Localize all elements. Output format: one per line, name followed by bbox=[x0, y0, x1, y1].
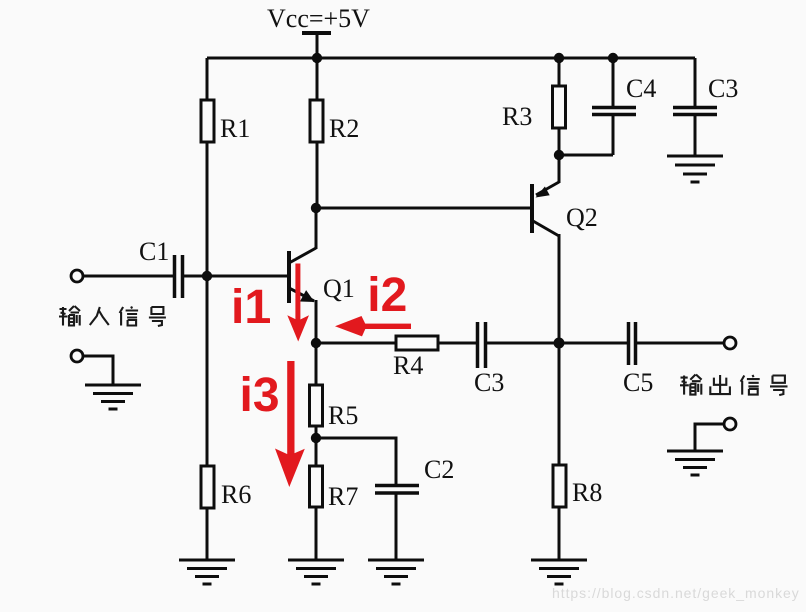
current arrow i2 bbox=[335, 316, 411, 336]
wire R3 to node bbox=[558, 128, 561, 155]
svg-text:C1: C1 bbox=[139, 237, 169, 266]
svg-text:Q1: Q1 bbox=[323, 274, 355, 303]
wire Q2 collector down bbox=[558, 234, 561, 343]
wire output node to C5 bbox=[559, 342, 627, 345]
wire rail to R1 bbox=[206, 58, 209, 100]
wire R5 to node bbox=[315, 426, 318, 438]
junction dot rail/R2 bbox=[312, 53, 322, 63]
capacitor C1 bbox=[175, 255, 183, 298]
wire node to R7 bbox=[315, 438, 318, 466]
capacitor C3 mid bbox=[478, 322, 486, 368]
wire Q1 emitter down bbox=[315, 300, 318, 343]
svg-text:C2: C2 bbox=[424, 455, 454, 484]
svg-text:R7: R7 bbox=[328, 482, 358, 511]
svg-text:C4: C4 bbox=[626, 74, 656, 103]
svg-text:R8: R8 bbox=[572, 478, 602, 507]
capacitor C3 top bbox=[673, 108, 717, 115]
junction dot Q1 emitter node bbox=[311, 338, 321, 348]
transistor Q2 bbox=[532, 182, 559, 236]
junction dot R5/R7/C2 bbox=[311, 433, 321, 443]
wire top rail bbox=[207, 57, 695, 60]
svg-text:i3: i3 bbox=[240, 369, 280, 422]
junction dot R2/Q2 base bbox=[311, 203, 321, 213]
wire base node to Q1 collector bbox=[315, 208, 318, 249]
wire R6 to ground bbox=[206, 508, 209, 560]
wire C3 to ground bbox=[694, 116, 697, 156]
capacitor C5 bbox=[629, 322, 636, 365]
wire rail to R2 bbox=[316, 58, 319, 100]
junction dot output node bbox=[554, 338, 565, 349]
wire input ground bbox=[83, 356, 113, 385]
wire R7 to ground bbox=[315, 507, 318, 560]
capacitor C4 bbox=[592, 108, 636, 115]
capacitor C2 bbox=[375, 486, 419, 494]
wire output ground bbox=[695, 424, 724, 451]
junction dot rail/R3 bbox=[554, 53, 564, 63]
ground under R8 bbox=[531, 560, 587, 584]
wire Q2 base rail bbox=[316, 207, 532, 210]
ground under R7 bbox=[288, 560, 344, 584]
current arrow i3 bbox=[275, 361, 305, 487]
resistor R8 bbox=[553, 465, 566, 507]
wire C4 down to node bbox=[612, 116, 615, 155]
wire input node to R6 bbox=[206, 276, 209, 466]
ground under C2 bbox=[368, 560, 424, 584]
input terminal bbox=[71, 270, 83, 282]
current arrow i1 bbox=[287, 264, 309, 342]
junction dot R3/C4 bbox=[554, 150, 564, 160]
svg-text:i2: i2 bbox=[367, 269, 407, 322]
junction dot input/R1 column bbox=[202, 271, 212, 281]
ground output bbox=[667, 451, 723, 475]
svg-text:i1: i1 bbox=[231, 281, 271, 334]
ground under R6 bbox=[179, 560, 235, 584]
junction dot rail/C4 bbox=[608, 53, 618, 63]
output ground terminal bbox=[724, 418, 736, 430]
wire output node to R8 bbox=[558, 343, 561, 465]
wire node to C2 bbox=[316, 438, 396, 484]
transistor Q1 bbox=[289, 248, 316, 303]
svg-text:R6: R6 bbox=[221, 480, 251, 509]
resistor R3 bbox=[553, 86, 566, 128]
wire C3 to output node bbox=[487, 342, 559, 345]
wire rail to R3 bbox=[558, 58, 561, 86]
resistor R6 bbox=[201, 466, 214, 508]
Vcc supply symbol bbox=[302, 33, 331, 58]
label output signal (drawn CJK) bbox=[680, 375, 788, 396]
resistor R2 bbox=[310, 100, 323, 142]
wire C1 to Q1 base bbox=[184, 275, 289, 278]
wire C5 to output terminal bbox=[637, 342, 724, 345]
svg-text:Q2: Q2 bbox=[566, 203, 598, 232]
ground input bbox=[85, 385, 141, 409]
ground under C3 top bbox=[667, 156, 723, 182]
wire rail to C4 bbox=[612, 58, 615, 106]
svg-text:C5: C5 bbox=[623, 368, 653, 397]
svg-text:R3: R3 bbox=[502, 102, 532, 131]
wire R2 to base node bbox=[316, 142, 319, 208]
svg-text:C3: C3 bbox=[708, 74, 738, 103]
wire R5 column bbox=[315, 343, 318, 385]
svg-text:https://blog.csdn.net/geek_mon: https://blog.csdn.net/geek_monkey bbox=[552, 585, 800, 601]
svg-text:R5: R5 bbox=[328, 401, 358, 430]
svg-text:C3: C3 bbox=[474, 368, 504, 397]
wire emitter node to R4 bbox=[316, 342, 396, 345]
svg-text:R1: R1 bbox=[220, 114, 250, 143]
svg-text:Vcc=+5V: Vcc=+5V bbox=[267, 4, 370, 33]
wire R8 to ground bbox=[558, 507, 561, 560]
wire R1 to input node bbox=[206, 142, 209, 276]
output terminal bbox=[724, 337, 736, 349]
wire node to C4 bbox=[559, 154, 613, 157]
resistor R7 bbox=[310, 466, 323, 507]
svg-text:R4: R4 bbox=[393, 351, 423, 380]
wire C2 to ground bbox=[395, 494, 398, 560]
resistor R5 bbox=[310, 385, 323, 426]
input ground terminal bbox=[71, 350, 83, 362]
resistor R4 bbox=[396, 336, 438, 350]
wire node to Q2 emitter bbox=[558, 155, 561, 183]
wire input to C1 bbox=[83, 275, 173, 278]
resistor R1 bbox=[201, 100, 214, 142]
wire R4 to C3 bbox=[438, 342, 476, 345]
svg-text:R2: R2 bbox=[329, 114, 359, 143]
wire rail corner to C3 top bbox=[694, 58, 697, 106]
label input signal (drawn CJK) bbox=[59, 306, 166, 326]
